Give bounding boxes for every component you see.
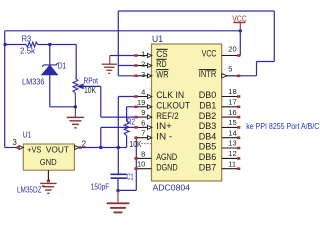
pin 4 tick [134, 95, 137, 98]
sensor LM35 pin 3 tick [17, 146, 20, 149]
pin 3 tick [134, 75, 137, 78]
wire ground return horizontal [118, 189, 136, 191]
svg-text:+VS: +VS [27, 145, 41, 155]
ground G1 near CS stem [109, 56, 111, 64]
junction R3 / D1 [48, 43, 51, 46]
svg-text:3: 3 [141, 70, 145, 79]
pin 18 tick [237, 95, 240, 98]
pin 15 DB3 stub [222, 126, 240, 128]
pin 9 tick [134, 116, 137, 119]
pin 19 arrow [148, 105, 152, 109]
svg-text:VOUT: VOUT [46, 145, 69, 155]
svg-text:IN -: IN - [156, 131, 172, 141]
pin 6 IN+ stub [136, 126, 152, 128]
svg-text:C1: C1 [127, 172, 134, 181]
pin 12 DB6 stub [222, 157, 240, 159]
svg-text:GND: GND [40, 157, 57, 167]
svg-text:RD: RD [156, 59, 167, 69]
junction IN- net / pin 8 [135, 157, 138, 160]
pin 2 arrow [148, 64, 152, 68]
ground G4 bottom bars [107, 202, 130, 204]
pin 17 DB1 stub [222, 106, 240, 108]
pin 20 VCC stub [222, 55, 240, 57]
pin 7 arrow [148, 136, 152, 140]
wire WR pin 3 [118, 75, 136, 77]
wire LM35 pin 3 [5, 147, 19, 149]
svg-text:20: 20 [228, 44, 236, 53]
resistor R2 red dotted mark [142, 143, 153, 145]
wire RPot bottom to ground [74, 93, 76, 117]
wire VCC rail horizontal [5, 30, 241, 32]
junction R2 / CLK IN net [117, 146, 120, 149]
svg-text:DB1: DB1 [199, 101, 216, 111]
wire INTR pin 5 to step [240, 75, 257, 77]
svg-text:1: 1 [141, 50, 145, 59]
pin 4 arrow [148, 95, 152, 99]
svg-text:R3: R3 [22, 34, 32, 43]
wire wiper vertical to REF/2 [100, 86, 102, 117]
svg-text:CS: CS [156, 49, 168, 59]
pin 19 CLKOUT stub [136, 106, 152, 108]
pin 18 DB0 stub [222, 96, 240, 98]
pin 1 arrow [148, 54, 152, 58]
pin 20 tick [237, 54, 240, 57]
svg-text:7: 7 [141, 129, 145, 138]
capacitor C1 top plate [111, 173, 127, 175]
pin 10 tick [134, 167, 137, 170]
wire down to RPot top [75, 45, 77, 79]
svg-text:17: 17 [228, 98, 236, 107]
pin 13 DB5 stub [222, 147, 240, 149]
svg-text:U1: U1 [152, 34, 163, 44]
sensor LM35 pin 2 arrow [75, 146, 79, 150]
svg-text:6: 6 [141, 118, 145, 127]
resistor R3 zigzag [26, 42, 38, 47]
svg-text:10: 10 [137, 160, 145, 169]
wire IN+ pin 6 [101, 126, 136, 128]
svg-text:2: 2 [141, 60, 145, 69]
svg-text:LM336: LM336 [22, 77, 45, 86]
wire pin 20 horizontal [239, 55, 242, 57]
potentiometer RPot wiper arrow [77, 84, 83, 89]
svg-text:R2: R2 [127, 117, 135, 126]
pin 1 name overline [156, 48, 168, 50]
svg-text:2.5k: 2.5k [20, 46, 36, 55]
op-amp U1 ADC0804 body [152, 44, 222, 181]
pin 11 tick [237, 167, 240, 170]
wire RPot wiper horizontal [83, 85, 101, 87]
pin 5 arrow [222, 74, 227, 78]
svg-text:IN+: IN+ [156, 121, 172, 131]
wire C1 bottom lead [117, 178, 119, 190]
wire R3 row right segment [38, 44, 76, 46]
svg-text:AGND: AGND [156, 152, 177, 162]
pin 8 tick [134, 157, 137, 160]
pin 3 WR stub [136, 75, 152, 77]
resistor R2 zigzag [124, 121, 129, 136]
svg-text:DB7: DB7 [199, 162, 217, 172]
svg-text:19: 19 [137, 98, 145, 107]
svg-text:VCC: VCC [202, 49, 217, 59]
pin 5 INTR stub [222, 75, 240, 77]
wire WR-INTR step vertical [256, 62, 258, 76]
svg-text:LM35DZ: LM35DZ [17, 185, 42, 194]
svg-text:2: 2 [82, 140, 87, 149]
pin 7 IN - stub [136, 137, 152, 139]
sensor LM35 pin 2 tick [79, 146, 82, 149]
svg-text:WR: WR [156, 70, 169, 80]
wire VCC rail left vertical [4, 31, 6, 148]
pin 8 AGND stub [136, 157, 152, 159]
wire IN+ vertical [100, 127, 102, 147]
ground G4 bottom stem [117, 191, 119, 203]
pin 16 DB2 stub [222, 116, 240, 118]
svg-text:DB5: DB5 [199, 142, 217, 152]
svg-text:13: 13 [228, 139, 236, 148]
svg-text:18: 18 [228, 87, 236, 96]
svg-text:DB4: DB4 [199, 131, 217, 141]
pin 2 tick [134, 64, 137, 67]
svg-text:9: 9 [141, 108, 145, 117]
pin 17 tick [237, 106, 240, 109]
capacitor C1 bottom plate [111, 177, 127, 179]
wire CLK IN vertical to C1 [117, 97, 119, 174]
pin 14 tick [237, 136, 240, 139]
sensor LM35 pin 3 arrow [19, 146, 23, 150]
pin 9 REF/2 stub [136, 116, 152, 118]
svg-text:U1: U1 [23, 130, 32, 139]
wire WR-INTR top loop horizontal [118, 10, 274, 12]
power VCC stem [239, 23, 241, 31]
potentiometer RPot zigzag [73, 78, 78, 93]
svg-text:D1: D1 [58, 61, 67, 70]
pin 7 tick [134, 136, 137, 139]
svg-text:15: 15 [228, 118, 236, 127]
wire WR-INTR right vertical [273, 11, 275, 62]
pin 4 CLK IN stub [136, 96, 152, 98]
svg-text:DGND: DGND [156, 162, 178, 172]
pin 15 tick [237, 126, 240, 129]
ground G3 below LM35 bars [40, 182, 57, 184]
pin 2 name overline [156, 58, 166, 60]
svg-text:14: 14 [228, 128, 236, 137]
junction VCC rail / R3 [3, 43, 6, 46]
svg-text:INTR: INTR [199, 69, 217, 79]
wire REF/2 pin 9 [101, 116, 136, 118]
wire R2 bottom to CLK IN net [118, 147, 126, 149]
svg-text:RPot: RPot [84, 76, 99, 85]
sensor LM35 stray overline mark [42, 185, 45, 187]
svg-text:CLKOUT: CLKOUT [156, 101, 190, 111]
svg-text:10K: 10K [130, 140, 143, 149]
pin 11 DB7 stub [222, 168, 240, 170]
svg-text:5: 5 [228, 65, 232, 74]
svg-text:3: 3 [12, 138, 17, 147]
ground G1 near CS bars [102, 63, 117, 65]
svg-text:CLK IN: CLK IN [156, 90, 184, 100]
ground G2 below RPot bars [67, 116, 84, 118]
wire WR-INTR step horizontal [257, 61, 275, 63]
diode D1 zener cathode bar [42, 63, 57, 67]
svg-text:8: 8 [141, 149, 145, 158]
sensor LM35 GND stub [47, 170, 49, 180]
pin 10 DGND stub [136, 168, 152, 170]
pin 13 tick [237, 147, 240, 150]
pin 2 RD stub [136, 65, 152, 67]
pin 1 tick [134, 54, 137, 57]
junction VCC rail / pin 20 drop [239, 29, 242, 32]
svg-text:ADC0804: ADC0804 [153, 182, 191, 192]
svg-text:4: 4 [141, 88, 145, 97]
wire D1 bottom lead [49, 75, 51, 107]
diode D1 zener triangle [42, 65, 58, 75]
wire LM35 VOUT horizontal [80, 147, 119, 149]
wire R2 bottom vertical [126, 136, 128, 148]
pin 16 tick [237, 116, 240, 119]
pin 5 tick [237, 75, 240, 78]
wire left vertical drop to WR [117, 11, 119, 76]
pin 5 name overline [199, 69, 217, 71]
wire CLK IN pin 4 [118, 96, 136, 98]
svg-text:DB6: DB6 [199, 152, 217, 162]
wire VCC drop to pin 20 [239, 31, 241, 56]
junction VOUT / IN+ riser [99, 146, 102, 149]
junction D1 / RPot ground node [74, 105, 77, 108]
junction IN- net / pin 10 [135, 167, 138, 170]
pin 9 arrow [148, 115, 152, 119]
wire CLKOUT pin 19 [127, 106, 136, 108]
sensor U1 LM35DZ body [23, 144, 74, 170]
wire IN- pin 7 vertical [135, 138, 137, 191]
pin 19 tick [134, 106, 137, 109]
svg-text:REF/2: REF/2 [156, 111, 179, 121]
ground G3 below LM35 stem tick [47, 180, 50, 183]
svg-text:11: 11 [228, 159, 236, 168]
svg-text:ke PPI 8255 Port A/B/C: ke PPI 8255 Port A/B/C [246, 122, 319, 131]
svg-text:12: 12 [228, 149, 236, 158]
junction C1 / ground return [116, 189, 119, 192]
svg-text:DB3: DB3 [199, 121, 217, 131]
wire D1 top lead [49, 45, 51, 65]
wire D1 to RPot bottom [50, 106, 76, 108]
pin 6 arrow [148, 125, 152, 129]
svg-text:DB2: DB2 [199, 111, 217, 121]
pin 3 name overline [156, 69, 168, 71]
pin 3 arrow [148, 74, 152, 78]
wire RD pin 2 [118, 65, 136, 67]
svg-text:DB0: DB0 [199, 90, 217, 100]
pin 14 DB4 stub [222, 137, 240, 139]
svg-text:10K: 10K [84, 86, 97, 95]
wire CS pin 1 [110, 55, 136, 57]
pin 1 CS stub [136, 55, 152, 57]
svg-text:150pF: 150pF [91, 182, 110, 191]
power VCC bar [234, 22, 246, 24]
wire CLKOUT down to R2 [126, 107, 128, 121]
svg-text:16: 16 [228, 108, 236, 117]
wire R3 row left segment [5, 44, 26, 46]
pin 12 tick [237, 157, 240, 160]
pin 6 tick [134, 126, 137, 129]
